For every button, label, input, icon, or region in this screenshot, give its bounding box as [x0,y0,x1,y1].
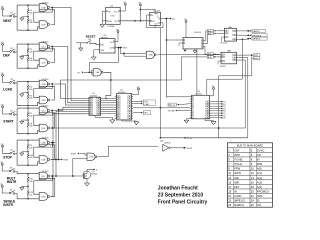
svg-text:U3A: U3A [42,141,47,144]
svg-text:STOP: STOP [3,156,12,160]
ground transistor [86,181,88,183]
svg-text:/OE: /OE [234,176,239,180]
wire START latch out2 long bus [52,127,245,129]
node CNT [133,100,141,102]
svg-text:A(1): A(1) [208,32,212,35]
resistor R12 10k [27,191,29,196]
net label A(0) [207,29,213,32]
wire CLK to divider [120,20,150,22]
wire RST output [115,47,120,49]
wire DEP output to buffer [52,47,87,103]
wire counter out A0 [205,31,208,41]
wire STOP out1 tap [51,142,54,144]
svg-text:IN: IN [257,157,260,161]
svg-text:/TGLE: /TGLE [234,162,242,166]
svg-text:A(0): A(0) [257,167,262,171]
node rails DEP [16,44,18,68]
svg-text:VIA: VIA [257,203,262,207]
wire STOP output up to buffer [59,109,88,159]
ground NEXT cell [22,16,28,18]
bus table [228,143,273,207]
node PROMCS [238,34,250,36]
svg-text:STORE: STORE [168,111,176,113]
net label FPR [254,54,260,57]
wire A3 from divider chain [181,57,207,80]
ground latch [122,120,137,122]
svg-text:20: 20 [251,189,255,193]
svg-text:13: 13 [228,176,232,180]
wire U9A out to decoder U8B [157,54,219,56]
svg-text:CLK: CLK [152,21,155,23]
svg-text:FPW: FPW [187,138,192,140]
wire cross-couple [51,46,53,48]
wire U8A out3 loop to register [238,38,242,40]
svg-text:SYNC: SYNC [71,153,77,155]
net label FPW2 [254,57,260,60]
svg-text:U9B: U9B [95,72,100,74]
svg-text:14: 14 [251,176,255,180]
wire cross-couple [51,110,53,112]
net label A(0..2) [168,103,176,106]
net label A(1) [207,32,213,35]
svg-text:R/W: R/W [257,162,263,166]
svg-text:21: 21 [228,194,232,198]
svg-text:U1B: U1B [42,24,47,26]
svg-text:CNT: CNT [234,148,240,152]
svg-text:A(0..2): A(0..2) [168,104,174,107]
nand gate U9B [89,71,91,73]
svg-text:10k: 10k [29,22,32,24]
ground LOAD cell [22,92,28,94]
svg-text:/RST: /RST [234,153,241,157]
resistor R2 10k [27,19,29,24]
wire 5V to PRE pin [140,10,155,13]
svg-text:LOAD: LOAD [234,194,241,198]
wire cross-couple [51,142,53,144]
resistor R1 10k [27,5,29,9]
svg-text:15: 15 [228,180,232,184]
svg-text:/WE: /WE [234,180,239,184]
svg-text:/WM: /WM [257,194,263,198]
svg-text:10k: 10k [29,157,32,159]
resistor R5 10k [27,82,29,86]
svg-text:U2D: U2D [42,128,47,130]
wire cross-couple [51,7,53,9]
net label A(3) [207,55,213,58]
svg-text:Jonathan Feucht: Jonathan Feucht [158,186,198,192]
wire cross-couple U3C/U3D [51,175,53,177]
ground register 1 [187,119,192,121]
wire MULT output to transistor and buffer [52,175,83,177]
svg-text:/FPW: /FPW [187,148,192,150]
svg-text:U3D: U3D [42,196,47,198]
wire phi vertical to register [166,19,168,98]
svg-text:OSC: OSC [110,16,115,18]
oscillator U7 [106,7,121,24]
svg-text:START: START [3,119,13,123]
svg-text:10k: 10k [29,12,32,14]
svg-text:INSTR: INSTR [7,180,17,184]
svg-text:S8: S8 [88,39,90,41]
svg-text:A(2): A(2) [257,176,262,180]
svg-text:2N7000: 2N7000 [91,174,97,176]
nand gate U1B [39,21,47,29]
svg-text:IMPELIS: IMPELIS [252,39,261,41]
ground MULT/SINGLE cell [22,185,28,187]
wire LOAD output to buffer [52,84,87,105]
svg-text:18: 18 [251,185,255,189]
svg-text:LOAD: LOAD [3,87,13,91]
node rails LOAD [16,82,18,106]
wire STOP RUN net [51,159,61,161]
resistor R7 10k [27,108,29,112]
svg-text:U2A: U2A [42,83,47,86]
svg-text:NEXT: NEXT [3,19,12,23]
svg-text:U1C: U1C [42,46,47,48]
wire MULT to U9D [73,158,87,176]
nand gate U2D [39,124,47,132]
wire phi2 to register clock [167,96,190,98]
svg-text:A(4): A(4) [257,185,262,189]
svg-text:U2B: U2B [42,100,47,102]
wire counter out A2 [205,47,208,55]
resistor R11 10k [27,174,29,177]
ground oscillator [100,23,105,25]
ground reset switch [76,42,86,44]
wire bus buffer to latch [102,97,115,99]
svg-text:23 September 2010: 23 September 2010 [158,193,204,199]
wire START output to buffer [52,107,87,110]
svg-text:IMPELIS: IMPELIS [234,199,245,203]
svg-text:26: 26 [251,203,255,207]
svg-text:11: 11 [228,171,231,175]
wire feedback /Q to D [147,15,164,28]
svg-text:74LS04: 74LS04 [164,143,171,145]
node IMPELIS [242,38,244,40]
svg-text:KEY: KEY [234,185,240,189]
svg-text:10k: 10k [29,126,32,128]
svg-text:10k: 10k [29,51,32,53]
wire FPW line [160,137,247,139]
svg-text:19: 19 [228,189,232,193]
svg-text:U2C: U2C [42,110,47,112]
svg-text:RAMCS: RAMCS [234,203,244,207]
net label A(2) [207,53,213,56]
node LOAD [133,103,141,105]
wire decode loop C [238,60,245,128]
svg-text:RUN: RUN [64,160,69,162]
resistor R10 10k [27,154,29,159]
register output taps [211,101,221,103]
node /FPW [171,147,185,149]
resistor R8 10k [27,122,29,127]
svg-text:A(3): A(3) [208,56,212,59]
wire phi div to FPW [159,28,161,138]
wire U9D output [97,146,158,157]
svg-text:RESET: RESET [86,34,96,38]
svg-text:A(1): A(1) [257,171,262,175]
svg-text:U1A: U1A [42,6,47,9]
svg-text:FPW: FPW [254,58,259,60]
wire drain to D [87,169,94,171]
ground register 2 [205,119,214,122]
svg-text:PROMCS: PROMCS [257,189,269,193]
nand gate U9D [87,153,95,160]
resistor R3 10k [27,44,29,48]
wire decode loop B FPW [238,58,248,138]
wire phi to counter clock [167,39,182,41]
node KEY [133,112,141,114]
svg-text:SI: SI [257,199,260,203]
ground counter 1 [183,50,186,52]
wire U9B output loop [104,72,111,97]
ground STOP cell [22,151,28,153]
node OE arrow [105,98,107,100]
svg-text:74LS93: 74LS93 [194,32,202,34]
svg-text:22: 22 [251,194,255,198]
svg-text:10k: 10k [29,89,32,91]
wire Q output phi2 [161,18,171,20]
svg-text:17: 17 [228,185,232,189]
svg-text:24: 24 [251,199,255,203]
nand gate U3B [39,156,47,164]
wire latch to register [133,107,190,109]
node rails NEXT [16,5,18,30]
svg-text:Front Panel Circuitry: Front Panel Circuitry [158,199,208,205]
wire counter out A1 [205,35,208,44]
wire counter gnd link to register [196,49,198,95]
transistor Q1 2N7000 [83,171,91,179]
wire decode loop A [219,58,252,137]
svg-text:DEP: DEP [3,53,10,57]
svg-text:U3B: U3B [42,159,47,161]
svg-text:74LS139: 74LS139 [220,42,227,44]
nand gate U3D [39,193,47,201]
wire RST to gate U9A inputs [120,48,146,54]
svg-text:10: 10 [251,167,255,171]
svg-text:10k: 10k [29,181,32,183]
svg-text:23: 23 [228,199,232,203]
ground DEP cell [22,54,28,56]
svg-text:74LS00: 74LS00 [220,66,226,68]
resistor R6 10k [27,94,29,99]
wire RST to gate U9B [89,48,118,72]
svg-text:RST: RST [123,48,128,50]
ground counter 2 [194,49,196,51]
wire cross-couple [51,83,53,85]
svg-text:10k: 10k [29,98,32,100]
svg-text:12: 12 [251,171,255,175]
svg-text:SYNC: SYNC [257,148,265,152]
node rails START [16,108,18,134]
ground buffer [95,115,112,120]
svg-text:BUS TO MAIN BOARD: BUS TO MAIN BOARD [237,144,263,148]
svg-text:10k: 10k [29,115,32,117]
svg-text:/TGHE: /TGHE [234,157,242,161]
svg-text:FPW: FPW [234,167,240,171]
svg-text:U1D: U1D [42,62,47,64]
resistor R4 10k [27,57,29,62]
svg-text:U9A: U9A [149,54,154,57]
svg-text:/FPW: /FPW [234,171,241,175]
node rails STOP [16,140,18,165]
nand gate U1D [39,59,47,67]
wire SINGLE output up to buffer [51,114,88,197]
resistor R9 10k [27,140,29,144]
nand gate U9A [146,51,154,58]
wire NEXT output to buffer [52,8,87,101]
svg-text:25: 25 [228,203,232,207]
svg-text:U9D: U9D [89,157,94,159]
svg-text:10k: 10k [29,60,32,62]
ground START cell [22,119,28,121]
svg-text:A(3): A(3) [257,180,262,184]
node RAMCS [238,30,250,32]
wire OE+GND to ground [102,11,105,24]
svg-text:IN: IN [234,189,237,193]
svg-text:10 MHz: 10 MHz [107,26,114,28]
wire U8B out 1 [238,54,252,56]
svg-text:10k: 10k [29,147,32,149]
svg-text:INSTR: INSTR [3,203,13,207]
svg-text:16: 16 [251,180,255,184]
nand gate U2B [39,96,47,104]
svg-text:10k: 10k [29,194,32,196]
svg-text:U3C: U3C [42,176,47,178]
svg-text:LSI: LSI [257,153,261,157]
ground reset chip [94,50,100,57]
